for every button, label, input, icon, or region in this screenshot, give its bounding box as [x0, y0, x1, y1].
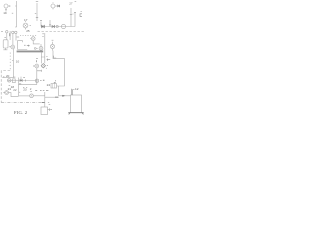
wire box outlet [48, 108, 52, 111]
vessel V1 bottom stub [3, 48, 7, 50]
boundary dash-dot horiz y102.5 [1, 102, 44, 104]
sensor C symbol right [80, 12, 82, 17]
label mark right of box [49, 103, 51, 105]
pump P1 circle-cross [23, 21, 28, 30]
vent line y59.5 [47, 59, 51, 61]
label left of x37 [35, 13, 36, 15]
label top of x37 [36, 1, 38, 3]
wire drop x41 [40, 22, 42, 27]
svg-text:12: 12 [75, 87, 79, 91]
label 15 [24, 44, 26, 46]
flow arrow [62, 95, 65, 97]
eductor diamond [41, 63, 45, 67]
wire vertical line x37 [36, 3, 38, 21]
tank T1 [68, 89, 84, 115]
label dash [4, 37, 6, 39]
tick at x50 junction [49, 24, 51, 26]
wire vertical x75 [74, 12, 76, 27]
svg-text:21: 21 [8, 87, 12, 91]
svg-text:20: 20 [6, 74, 10, 78]
valve tick on x37 [36, 17, 38, 19]
tick on x18.5 [19, 91, 20, 93]
vessel V1 [3, 40, 8, 48]
label 15 left of pump [9, 46, 10, 48]
boundary dash vertical x1.2 [0, 71, 2, 103]
wire x10.2 [9, 31, 11, 40]
wire vertical x18.5 [18, 78, 20, 96]
wire tick right of gauge [8, 5, 10, 7]
pipe pump out [57, 86, 65, 96]
label left dot [1, 31, 3, 33]
valve tick on x71 [70, 13, 74, 16]
label above V5 [36, 58, 38, 62]
reservoir box 10 [41, 107, 48, 115]
thick manifold band [17, 50, 44, 52]
gauge circle bottom-left [3, 91, 8, 95]
label arrow mark [27, 45, 30, 47]
valve bowtie at x53.5 [52, 25, 55, 27]
wire V5 down [36, 68, 38, 85]
label 2 [23, 77, 25, 79]
wire stub above bowtie [20, 77, 22, 80]
wire stem to trough [15, 34, 17, 41]
valve bowtie left end [42, 25, 45, 27]
pipe B y80.5 [8, 80, 38, 82]
wire vertical x71 [70, 8, 72, 27]
feed circle small left [6, 31, 8, 33]
label dash [9, 84, 11, 86]
valve V6 circle-cross [7, 79, 11, 83]
wire vertical x44.8 [44, 33, 46, 63]
svg-text:25: 25 [26, 29, 30, 33]
dotted line y35.5 [20, 35, 37, 37]
instrument circle at x63.5 [61, 24, 65, 28]
boundary dash horiz y70.5 [1, 70, 10, 72]
svg-text:22: 22 [13, 88, 17, 92]
dark segment on x10.2 [9, 33, 11, 36]
wire pump down pipe [13, 49, 15, 78]
label dot right [47, 65, 48, 67]
trough vessel [18, 41, 28, 50]
junction mark pipeA [13, 76, 15, 78]
wire drop x50 [49, 20, 51, 27]
valve V7 circle-cross on pipeB [35, 79, 38, 82]
tick on line [15, 26, 16, 28]
pipe main horizontal y26.5 [41, 26, 75, 28]
pipe A y77.5 [2, 77, 13, 79]
svg-text:10: 10 [16, 60, 20, 64]
junction dark [19, 83, 21, 85]
wire valve3 down [33, 41, 40, 44]
inline component box [13, 79, 16, 83]
compressor block 24 [51, 80, 57, 88]
pipe to tank y95.8 [59, 95, 71, 97]
svg-text:24: 24 [47, 83, 51, 87]
pipe C y84.5 [19, 84, 37, 86]
gauge circle 26 top-middle [51, 2, 56, 9]
junction dot [3, 76, 4, 78]
label small L mark [54, 56, 57, 58]
wire pump3 discharge [41, 52, 45, 63]
label dot [45, 67, 48, 69]
label above x41 [40, 19, 42, 21]
label near x44.8 [42, 34, 43, 37]
valve bowtie right of gauge [55, 5, 58, 7]
valve V4 on vertical [50, 42, 54, 51]
svg-text:23: 23 [23, 87, 27, 91]
wire vertical line x16.5 [16, 1, 18, 27]
boundary dash vertical x10.2 [9, 53, 11, 71]
svg-text:17: 17 [24, 18, 28, 22]
small circle at x57 [56, 25, 58, 27]
valve V3 circle-cross [30, 37, 35, 41]
tick junction x75 [74, 11, 76, 13]
label mark x75 top [75, 1, 77, 3]
tick on pipe [12, 59, 13, 61]
wire gauge to line [9, 93, 19, 97]
flow circle F1 [30, 92, 34, 98]
boundary dashed line right y31.5 [38, 31, 86, 33]
wire V5 top-right branch [37, 70, 42, 72]
label top marks [17, 36, 20, 38]
gauge circle 19 top-left [4, 4, 8, 8]
wire vertical x44.8 bottom [44, 92, 46, 107]
wire V4 to x64.5 [53, 51, 65, 87]
wire stem vessel1 [6, 33, 8, 40]
pump P3 circle-cross [39, 44, 43, 50]
outlet dot [51, 108, 52, 111]
svg-text:27: 27 [69, 2, 73, 6]
twin circles feed [12, 31, 14, 33]
label marks y90.5 [35, 89, 48, 91]
label tick left of V5 [33, 65, 35, 67]
label above V4 [52, 39, 54, 41]
svg-text:19: 19 [3, 11, 7, 15]
pipe right of F1 [33, 95, 44, 97]
pipe bottom y95.8 [19, 95, 30, 97]
wire stem below gauge [5, 8, 7, 12]
pipe y97 [45, 96, 59, 98]
svg-text:FIG. 2: FIG. 2 [14, 110, 28, 115]
wire stem to pump [12, 34, 14, 45]
trough tick [22, 41, 24, 43]
dark segment [55, 96, 58, 98]
label dash [46, 55, 47, 57]
valve bowtie on pipeB [20, 80, 22, 82]
label dash right [40, 79, 42, 81]
label marks under pipeC [23, 86, 27, 88]
tick right of pump P1 [30, 25, 31, 27]
valve V5 circle-cross [35, 64, 39, 68]
junction tick pipeB [25, 80, 27, 82]
pump P2 circle-cross [11, 45, 15, 49]
small circle label [34, 48, 36, 50]
